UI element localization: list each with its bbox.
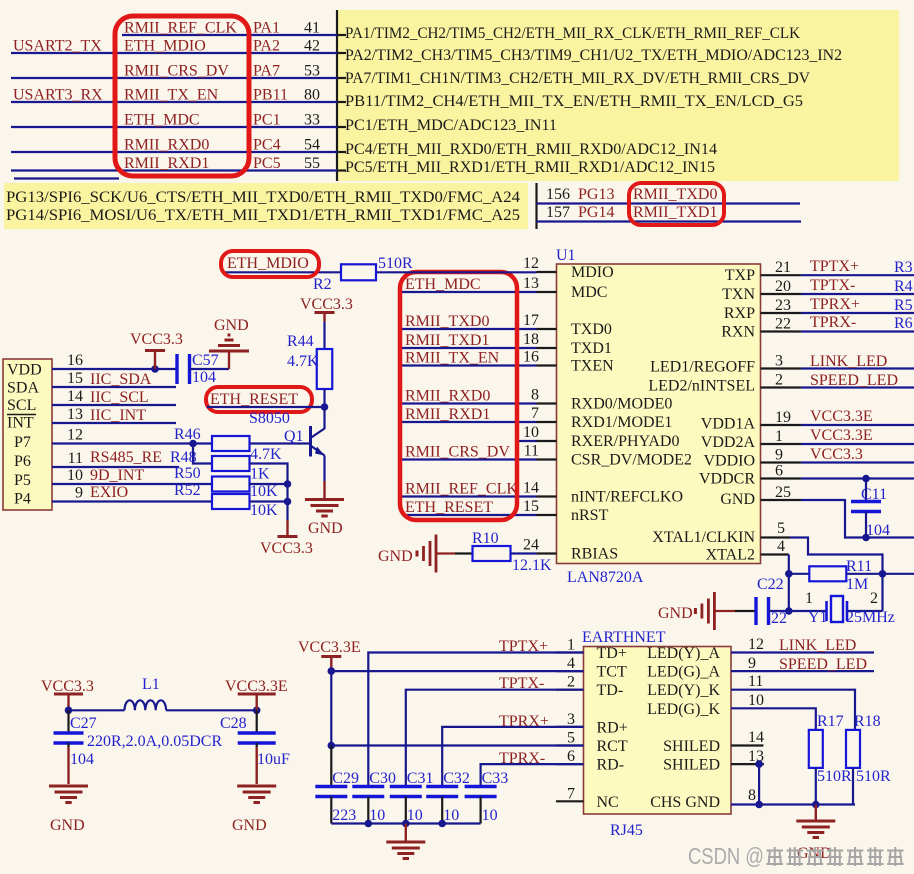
svg-text:ETH_RESET: ETH_RESET <box>210 391 298 408</box>
wire PC5 row <box>11 169 337 171</box>
svg-text:PC5/ETH_MII_RXD1/ETH_RMII_RXD1: PC5/ETH_MII_RXD1/ETH_RMII_RXD1/ADC12_IN1… <box>345 159 715 176</box>
svg-text:EXIO: EXIO <box>90 484 128 501</box>
svg-text:16: 16 <box>523 349 539 366</box>
pin 5 stub RJ45 left <box>556 744 584 746</box>
svg-text:1K: 1K <box>250 466 270 483</box>
svg-text:VCC3.3: VCC3.3 <box>260 540 313 557</box>
pin 8 stub U1 left <box>537 402 557 404</box>
svg-text:C33: C33 <box>482 770 509 787</box>
svg-text:VCC3.3E: VCC3.3E <box>810 427 873 444</box>
pin 14 stub U1 left <box>537 495 557 497</box>
svg-text:RMII_RXD0: RMII_RXD0 <box>405 388 490 405</box>
svg-text:Y1: Y1 <box>808 609 828 626</box>
junction VCC tap <box>151 365 159 373</box>
wire SPEED_LED net <box>731 670 874 672</box>
svg-text:104: 104 <box>70 751 94 768</box>
svg-text:RCT: RCT <box>597 738 628 755</box>
svg-text:VDD2A: VDD2A <box>701 434 756 451</box>
svg-text:PG13/SPI6_SCK/U6_CTS/ETH_MII_T: PG13/SPI6_SCK/U6_CTS/ETH_MII_TXD0/ETH_RM… <box>6 189 520 206</box>
wire stub bottom-left <box>14 177 119 179</box>
wire ETH_MDIO to R2 <box>222 271 341 273</box>
wire pin 10 9D_INT to R50 <box>52 483 212 485</box>
pin 9 stub U1 right <box>761 461 802 463</box>
svg-text:R5: R5 <box>894 297 913 314</box>
wire R52 to rail <box>250 500 288 502</box>
svg-text:TPRX+: TPRX+ <box>810 296 860 313</box>
wire RCT net <box>331 744 583 746</box>
pin 6 stub U1 right <box>761 477 802 479</box>
svg-text:ETH_MDC: ETH_MDC <box>124 112 200 129</box>
svg-text:156: 156 <box>546 186 570 203</box>
svg-text:54: 54 <box>304 137 320 154</box>
wire R50 to rail <box>250 483 288 485</box>
wire net RMII_RXD1 <box>402 421 537 423</box>
svg-text:SPEED_LED: SPEED_LED <box>810 372 898 389</box>
svg-text:VCC3.3: VCC3.3 <box>130 331 183 348</box>
svg-text:MDC: MDC <box>571 284 607 301</box>
annotation box around U1 left net labels <box>400 272 517 520</box>
MCU port block highlight (yellow) <box>337 10 899 181</box>
svg-text:TPTX+: TPTX+ <box>499 638 548 655</box>
resistor R44 <box>317 349 333 389</box>
svg-text:SHILED: SHILED <box>663 738 720 755</box>
pin 23 stub U1 right <box>761 312 802 314</box>
transistor Q1 <box>323 407 325 429</box>
svg-text:RXP: RXP <box>724 305 755 322</box>
svg-text:RMII_TX_EN: RMII_TX_EN <box>405 350 500 367</box>
svg-text:1M: 1M <box>846 576 868 593</box>
svg-text:17: 17 <box>523 312 539 329</box>
svg-text:SCL: SCL <box>7 397 36 414</box>
svg-text:PC4: PC4 <box>253 137 281 154</box>
wire PA7 row <box>11 77 337 79</box>
svg-text:4.7K: 4.7K <box>250 446 282 463</box>
svg-text:10: 10 <box>523 424 539 441</box>
svg-text:IIC_SDA: IIC_SDA <box>90 371 152 388</box>
svg-text:2: 2 <box>775 372 783 389</box>
svg-text:R46: R46 <box>174 426 201 443</box>
svg-text:VDDCR: VDDCR <box>699 471 755 488</box>
svg-text:12: 12 <box>523 255 539 272</box>
pin 25 stub U1 right <box>761 499 802 501</box>
svg-text:RMII_REF_CLK: RMII_REF_CLK <box>124 20 237 37</box>
wire down to C29 <box>330 746 332 787</box>
svg-text:RMII_TXD1: RMII_TXD1 <box>633 204 717 221</box>
svg-text:XTAL2: XTAL2 <box>706 547 755 564</box>
svg-text:14: 14 <box>523 480 539 497</box>
svg-text:10uF: 10uF <box>257 751 290 768</box>
pin stub PC4 <box>337 151 346 153</box>
wire ETH_RESET <box>207 406 325 408</box>
svg-text:LED(Y)_A: LED(Y)_A <box>647 645 720 662</box>
junction rail C30 <box>365 820 373 828</box>
svg-text:25: 25 <box>775 484 791 501</box>
svg-text:PA1/TIM2_CH2/TIM5_CH2/ETH_MII_: PA1/TIM2_CH2/TIM5_CH2/ETH_MII_RX_CLK/ETH… <box>345 25 800 42</box>
svg-text:RXN: RXN <box>721 324 755 341</box>
ground GND below Q1 <box>323 481 325 500</box>
capacitor C28 <box>256 710 258 733</box>
wire C28 to GND <box>256 747 258 784</box>
svg-text:10: 10 <box>67 467 83 484</box>
svg-text:RD-: RD- <box>597 757 625 774</box>
svg-text:33: 33 <box>304 112 320 129</box>
svg-text:C31: C31 <box>407 770 434 787</box>
wire net RMII_TXD0 <box>402 328 537 330</box>
wire C57 to GND <box>190 368 230 370</box>
svg-text:GND: GND <box>214 317 249 334</box>
wire GND to R10 <box>436 552 455 554</box>
wire R2 to U1 pin 12 <box>376 271 537 273</box>
pin stub PA1 <box>337 34 346 36</box>
svg-text:1: 1 <box>775 428 783 445</box>
pin stub PC5 <box>337 169 346 171</box>
overline on INT <box>7 414 36 416</box>
svg-text:RMII_RXD0: RMII_RXD0 <box>124 137 209 154</box>
svg-text:10: 10 <box>407 807 423 824</box>
junction rail C31 <box>402 820 410 828</box>
svg-text:R50: R50 <box>174 465 201 482</box>
svg-text:PA7/TIM1_CH1N/TIM3_CH2/ETH_MII: PA7/TIM1_CH1N/TIM3_CH2/ETH_MII_RX_DV/ETH… <box>345 70 810 87</box>
svg-text:PC5: PC5 <box>253 155 281 172</box>
wire to right edge <box>883 573 914 575</box>
pin 1 stub U1 right <box>761 443 802 445</box>
wire LINK_LED net <box>731 651 874 653</box>
pin stub PC1 <box>337 126 346 128</box>
pin 13 stub <box>731 763 764 765</box>
MCU sheet-symbol edge (PG13/PG14 block) <box>535 183 537 229</box>
wire net ETH_MDC <box>402 291 537 293</box>
resistor R10 <box>473 546 511 561</box>
svg-text:8: 8 <box>748 787 756 804</box>
wire from pin 23 <box>801 312 914 314</box>
pin 5 stub U1 <box>761 536 791 538</box>
pin 2 stub RJ45 left <box>556 689 584 691</box>
wire VCC3.3 to L1 <box>69 709 125 711</box>
wire net RMII_TX_EN <box>402 364 537 366</box>
svg-text:22: 22 <box>771 610 787 627</box>
svg-text:EARTHNET: EARTHNET <box>582 629 666 646</box>
svg-text:USART3_RX: USART3_RX <box>13 87 103 104</box>
pin 16 stub U1 left <box>537 364 557 366</box>
junction ETH_RESET node <box>321 403 329 411</box>
wire TPTX- net <box>406 690 584 787</box>
capacitor C31 <box>390 785 422 788</box>
svg-text:14: 14 <box>748 729 764 746</box>
svg-text:510R: 510R <box>856 768 891 785</box>
svg-text:R4: R4 <box>894 278 913 295</box>
svg-text:RMII_RXD1: RMII_RXD1 <box>405 406 490 423</box>
wire PG13 row <box>537 202 801 204</box>
wire net RMII_CRS_DV <box>402 458 537 460</box>
svg-text:RXD1/MODE1: RXD1/MODE1 <box>571 414 672 431</box>
svg-text:2: 2 <box>567 674 575 691</box>
wire pin 13 IIC_INT <box>52 422 176 424</box>
wire C27 to GND <box>67 747 69 784</box>
svg-text:5: 5 <box>567 730 575 747</box>
svg-text:5: 5 <box>777 520 785 537</box>
svg-text:TPTX-: TPTX- <box>499 675 544 692</box>
svg-text:TPTX+: TPTX+ <box>810 258 859 275</box>
svg-text:VDD1A: VDD1A <box>701 416 756 433</box>
wire R44 to collector node <box>323 389 325 407</box>
junction on GND wire <box>862 534 870 542</box>
svg-text:8: 8 <box>531 387 539 404</box>
svg-text:VCC3.3: VCC3.3 <box>41 678 94 695</box>
svg-text:SHILED: SHILED <box>663 757 720 774</box>
svg-text:nRST: nRST <box>571 507 609 524</box>
junction rail/R52 <box>284 498 292 506</box>
resistor R48 <box>212 456 250 471</box>
pin 20 stub U1 right <box>761 293 802 295</box>
wire PA1 row <box>122 34 337 36</box>
svg-text:9: 9 <box>775 447 783 464</box>
svg-text:157: 157 <box>546 204 570 221</box>
wire pin13 down <box>758 764 760 804</box>
pin 1 stub RJ45 left <box>556 651 584 653</box>
svg-text:C27: C27 <box>70 715 97 732</box>
svg-text:INT: INT <box>7 415 34 432</box>
svg-text:C57: C57 <box>192 352 219 369</box>
svg-text:220R,2.0A,0.05DCR: 220R,2.0A,0.05DCR <box>87 733 222 750</box>
svg-text:P5: P5 <box>14 472 31 489</box>
inductor L1 <box>125 700 167 710</box>
wire from pin 21 <box>801 274 914 276</box>
ground GND below C28 <box>237 785 276 788</box>
svg-text:USART2_TX: USART2_TX <box>13 38 102 55</box>
svg-text:20: 20 <box>775 278 791 295</box>
wire R17 bottom <box>815 768 817 805</box>
svg-text:GND: GND <box>720 491 755 508</box>
wire net RMII_TXD1 <box>402 347 537 349</box>
svg-text:U1: U1 <box>556 247 576 264</box>
svg-text:2: 2 <box>870 590 878 607</box>
pin 14 stub <box>731 744 763 746</box>
svg-text:7: 7 <box>531 405 539 422</box>
svg-text:RJ45: RJ45 <box>610 822 643 839</box>
svg-text:TPRX+: TPRX+ <box>499 713 549 730</box>
capacitor C33 <box>465 785 497 788</box>
pin 3 stub U1 right <box>761 367 802 369</box>
svg-text:RMII_TXD0: RMII_TXD0 <box>405 313 489 330</box>
wire PG14 row <box>537 220 802 222</box>
junction C27 node <box>65 707 73 715</box>
capacitor C22 <box>754 597 757 625</box>
wire crystal pin 2 <box>847 610 883 612</box>
wire GND to C22 <box>714 610 735 612</box>
svg-text:4: 4 <box>567 655 575 672</box>
power VCC3.3 below rail <box>286 520 288 535</box>
wire TPTX+ net <box>368 653 583 787</box>
svg-text:41: 41 <box>304 20 320 37</box>
svg-text:RS485_RE: RS485_RE <box>90 449 162 466</box>
annotation box around top-left net labels <box>115 16 249 176</box>
pin 12 stub U1 left <box>537 271 557 273</box>
svg-text:21: 21 <box>775 259 791 276</box>
svg-text:C28: C28 <box>220 715 247 732</box>
svg-text:9D_INT: 9D_INT <box>90 467 144 484</box>
svg-text:LED1/REGOFF: LED1/REGOFF <box>650 359 755 376</box>
svg-text:VCC3.3E: VCC3.3E <box>225 678 288 695</box>
pin 17 stub U1 left <box>537 328 557 330</box>
svg-text:SDA: SDA <box>7 380 39 397</box>
annotation box around ETH_MDIO <box>221 251 319 277</box>
pin stub PB11 <box>337 101 346 103</box>
pin 21 stub U1 right <box>761 274 802 276</box>
wire pin 11 RS485_RE <box>52 466 179 468</box>
wire XTAL2 route <box>788 555 790 612</box>
svg-text:3: 3 <box>567 711 575 728</box>
svg-text:TPRX-: TPRX- <box>499 750 545 767</box>
capacitor C27 <box>67 710 69 733</box>
wire PA2 row <box>11 52 337 54</box>
svg-text:15: 15 <box>67 370 83 387</box>
svg-text:RD+: RD+ <box>597 719 628 736</box>
svg-text:16: 16 <box>67 352 83 369</box>
wire XTAL1 route <box>790 538 883 612</box>
svg-text:11: 11 <box>68 450 83 467</box>
svg-text:6: 6 <box>775 463 783 480</box>
wire from pin 1 <box>801 443 914 445</box>
svg-text:Q1: Q1 <box>284 428 304 445</box>
svg-text:S8050: S8050 <box>249 410 290 427</box>
wire pin 10 stub <box>517 440 537 442</box>
ground GND below C27 <box>49 785 88 788</box>
resistor R46 <box>212 436 250 451</box>
wire net RMII_RXD0 <box>402 402 537 404</box>
watermark chinese glyphs <box>767 847 904 866</box>
svg-text:R18: R18 <box>854 713 881 730</box>
yellow highlight band PG13/PG14 <box>4 183 528 229</box>
svg-text:C22: C22 <box>757 576 784 593</box>
svg-text:10: 10 <box>482 807 498 824</box>
svg-text:PA1: PA1 <box>253 20 280 37</box>
connector P? body <box>3 359 52 510</box>
svg-text:ETH_MDIO: ETH_MDIO <box>124 38 206 55</box>
svg-text:10K: 10K <box>250 502 278 519</box>
svg-text:LINK_LED: LINK_LED <box>810 353 887 370</box>
svg-text:RXER/PHYAD0: RXER/PHYAD0 <box>571 433 679 450</box>
svg-text:10: 10 <box>369 807 385 824</box>
resistor R2 <box>341 264 376 280</box>
svg-text:15: 15 <box>523 498 539 515</box>
wire PC1 row <box>11 126 337 128</box>
svg-text:R2: R2 <box>313 276 332 293</box>
svg-text:42: 42 <box>304 38 320 55</box>
pin 22 stub U1 right <box>761 330 802 332</box>
wire TCT net <box>331 670 583 672</box>
svg-text:PC1: PC1 <box>253 112 281 129</box>
svg-text:SPEED_LED: SPEED_LED <box>779 656 867 673</box>
wire net ETH_RESET <box>402 514 537 516</box>
svg-text:PB11/TIM2_CH4/ETH_MII_TX_EN/ET: PB11/TIM2_CH4/ETH_MII_TX_EN/ETH_RMII_TX_… <box>345 93 803 110</box>
svg-text:10K: 10K <box>250 483 278 500</box>
svg-text:GND: GND <box>232 817 267 834</box>
wire pin 11 to R18 <box>731 690 855 730</box>
svg-text:3: 3 <box>775 353 783 370</box>
junction VCC3.3E/TCT <box>328 667 336 675</box>
svg-text:104: 104 <box>192 369 216 386</box>
wire from pin 22 <box>801 330 914 332</box>
junction pin8/pin13 <box>755 801 763 809</box>
pin 24 stub U1 left <box>537 552 557 554</box>
svg-text:R6: R6 <box>894 315 913 332</box>
svg-text:VCC3.3E: VCC3.3E <box>810 408 873 425</box>
svg-text:18: 18 <box>523 331 539 348</box>
wire PB11 row <box>11 101 337 103</box>
svg-text:13: 13 <box>523 275 539 292</box>
svg-text:R11: R11 <box>846 558 872 575</box>
svg-text:R44: R44 <box>287 333 314 350</box>
svg-text:PC4/ETH_MII_RXD0/ETH_RMII_RXD0: PC4/ETH_MII_RXD0/ETH_RMII_RXD0/ADC12_IN1… <box>345 141 717 158</box>
svg-text:11: 11 <box>748 673 763 690</box>
wire net RMII_REF_CLK <box>402 495 537 497</box>
junction rail C32 <box>438 820 446 828</box>
svg-text:NC: NC <box>597 794 619 811</box>
svg-text:PA7: PA7 <box>253 63 280 80</box>
svg-text:RMII_REF_CLK: RMII_REF_CLK <box>405 481 518 498</box>
svg-text:RMII_CRS_DV: RMII_CRS_DV <box>405 444 510 461</box>
svg-text:TD-: TD- <box>597 682 624 699</box>
svg-text:TXD1: TXD1 <box>571 340 612 357</box>
svg-text:223: 223 <box>332 807 356 824</box>
resistor R50 <box>212 477 250 492</box>
junction C28 node <box>253 707 261 715</box>
pin 15 stub U1 left <box>537 514 557 516</box>
junction crystal node <box>785 607 793 615</box>
svg-text:TXN: TXN <box>722 286 755 303</box>
svg-text:19: 19 <box>775 409 791 426</box>
wire L1 to VCC3.3E <box>166 709 257 711</box>
svg-text:GND: GND <box>50 817 85 834</box>
svg-text:9: 9 <box>748 655 756 672</box>
svg-text:4.7K: 4.7K <box>287 353 319 370</box>
junction on pin 6 wire <box>862 475 870 483</box>
connector RJ45 body (EARTHNET) <box>584 647 732 815</box>
pin 13 stub U1 left <box>537 291 557 293</box>
wire pin 25 GND route <box>801 500 914 538</box>
svg-text:R52: R52 <box>174 482 201 499</box>
svg-text:LED(G)_A: LED(G)_A <box>647 664 720 681</box>
svg-text:nINT/REFCLKO: nINT/REFCLKO <box>571 489 683 506</box>
svg-text:12: 12 <box>748 636 764 653</box>
svg-text:ETH_MDC: ETH_MDC <box>405 276 481 293</box>
svg-text:C30: C30 <box>369 770 396 787</box>
svg-text:11: 11 <box>524 443 539 460</box>
svg-text:13: 13 <box>67 406 83 423</box>
wire from pin 3 <box>801 367 914 369</box>
wire pin 8 GND net <box>731 803 855 805</box>
svg-text:80: 80 <box>304 87 320 104</box>
svg-text:TD+: TD+ <box>597 645 627 662</box>
svg-text:9: 9 <box>75 485 83 502</box>
svg-text:RMII_TX_EN: RMII_TX_EN <box>124 87 219 104</box>
svg-text:TXD0: TXD0 <box>571 321 612 338</box>
svg-text:PC1/ETH_MDC/ADC123_IN11: PC1/ETH_MDC/ADC123_IN11 <box>345 117 557 134</box>
svg-text:1: 1 <box>805 590 813 607</box>
svg-text:RMII_RXD1: RMII_RXD1 <box>124 155 209 172</box>
wire C22 to crystal <box>769 610 789 612</box>
svg-text:PG14: PG14 <box>578 204 614 221</box>
capacitor C29 <box>315 785 347 788</box>
svg-text:PA2: PA2 <box>253 38 280 55</box>
annotation box around RMII_TXD0/RMII_TXD1 <box>629 183 724 225</box>
svg-text:24: 24 <box>523 537 539 554</box>
wire R46 to Q1 base <box>250 442 311 444</box>
svg-text:RBIAS: RBIAS <box>571 546 618 563</box>
pin 11 stub U1 left <box>537 458 557 460</box>
svg-text:RXD0/MODE0: RXD0/MODE0 <box>571 396 672 413</box>
wire from pin 19 <box>801 424 914 426</box>
